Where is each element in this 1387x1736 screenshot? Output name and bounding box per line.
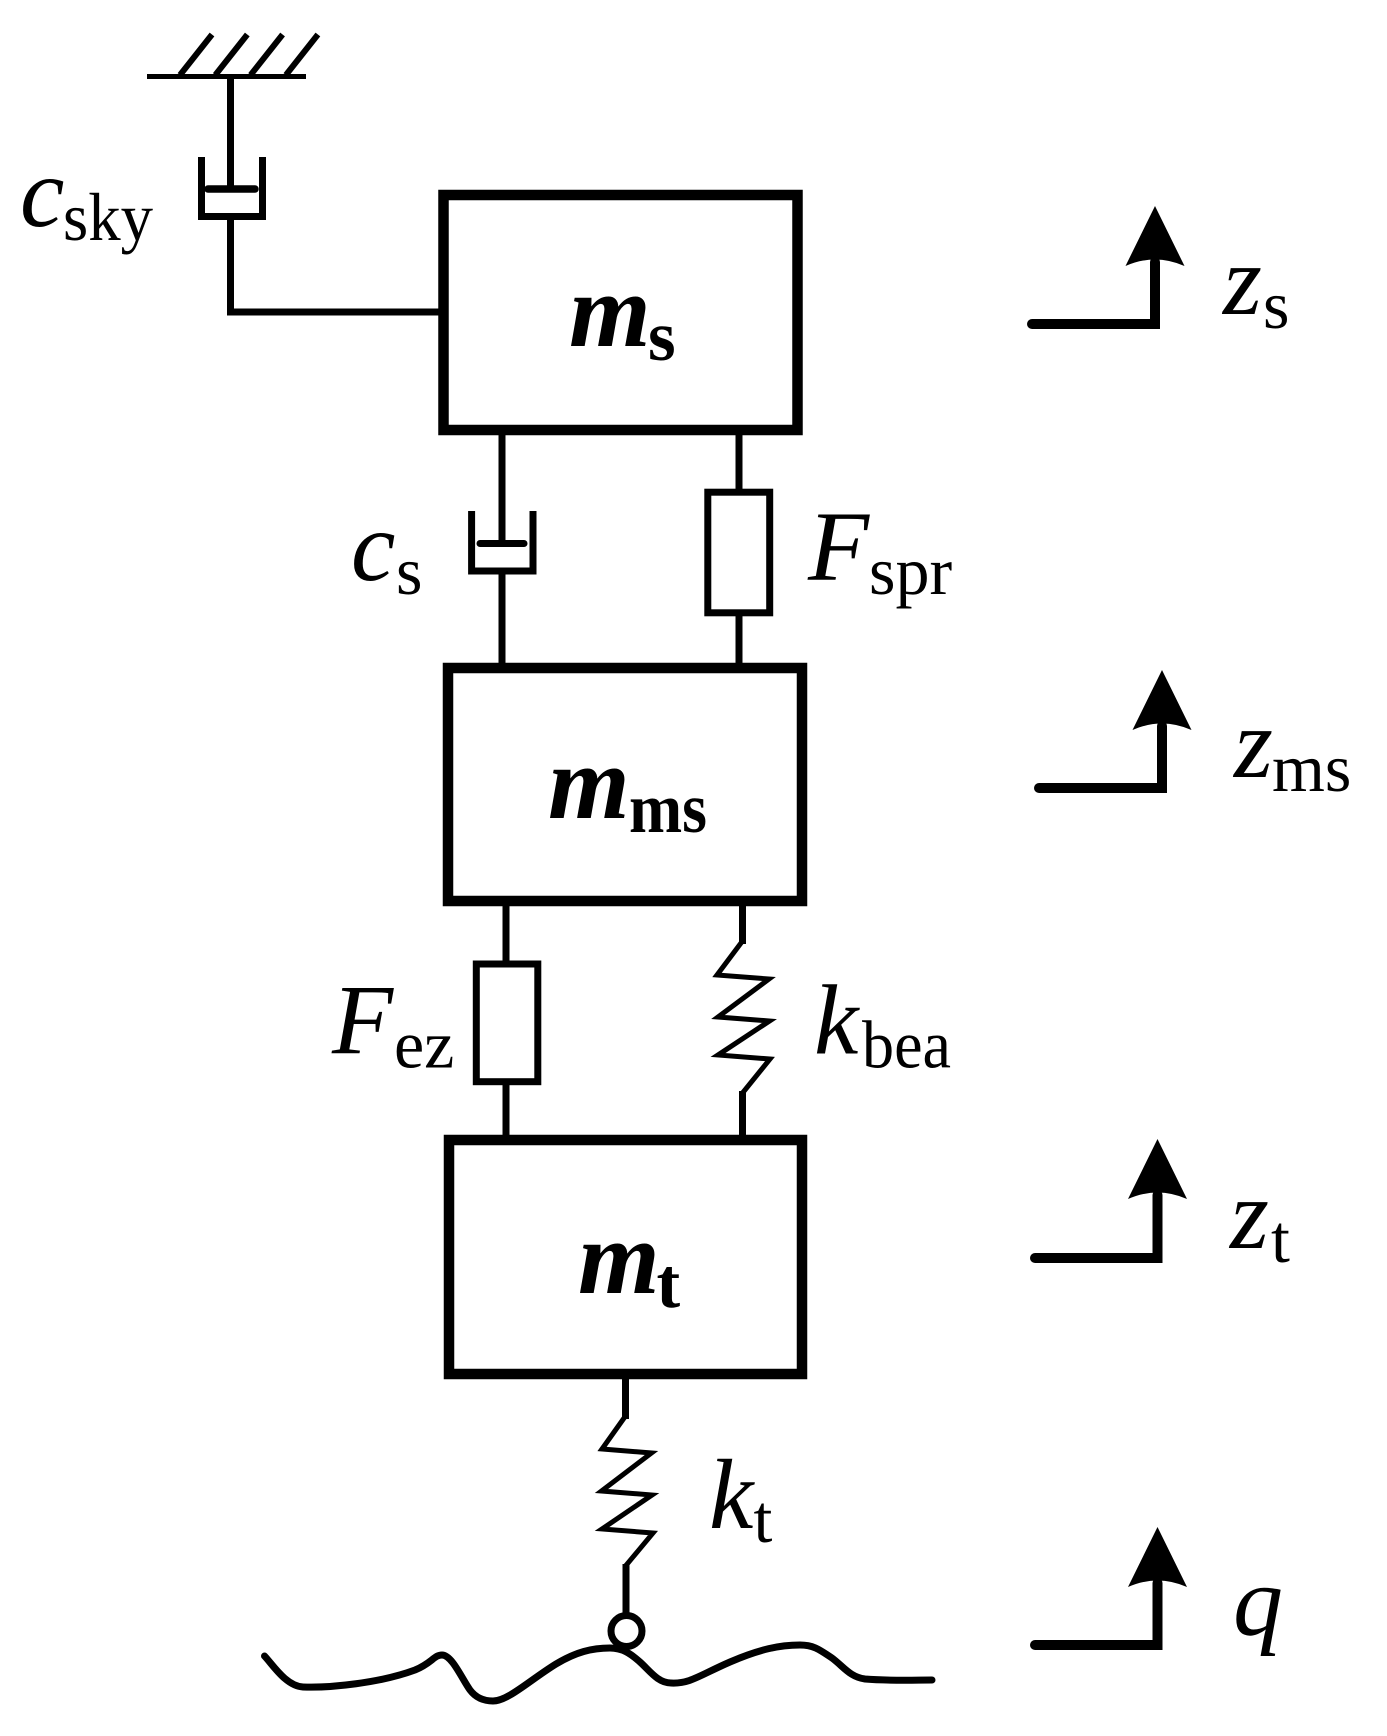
axis arrow z_s	[1032, 206, 1185, 324]
wire m_ms to force element F_ez	[503, 906, 510, 963]
svg-text:m: m	[569, 252, 651, 369]
svg-text:k: k	[709, 1439, 755, 1550]
force element F_spr	[708, 492, 770, 613]
wire damper c_s to mass m_ms	[499, 574, 506, 665]
svg-text:spr: spr	[869, 533, 952, 609]
mass m_s	[444, 195, 798, 430]
svg-text:F: F	[331, 965, 394, 1076]
force element F_ez	[476, 964, 538, 1082]
spring k_t	[602, 1416, 654, 1566]
wire ceiling to damper piston	[227, 76, 234, 187]
svg-text:s: s	[396, 533, 422, 609]
wire m_t to spring k_t	[622, 1379, 629, 1419]
road contact point (circle)	[611, 1616, 642, 1647]
axis arrow z_ms	[1039, 670, 1192, 788]
spring k_bea	[717, 941, 770, 1093]
damper c_sky	[202, 157, 263, 217]
svg-text:bea: bea	[862, 1007, 951, 1083]
wire m_ms to spring k_bea	[739, 906, 746, 944]
svg-text:ms: ms	[629, 770, 707, 848]
mass m_t	[449, 1140, 802, 1374]
axis arrow z_t	[1035, 1139, 1187, 1258]
svg-text:z: z	[1221, 225, 1262, 336]
svg-text:s: s	[1263, 267, 1289, 343]
damper c_s	[472, 511, 533, 571]
svg-text:k: k	[814, 965, 860, 1076]
mass m_ms	[448, 668, 802, 901]
svg-text:m: m	[548, 724, 630, 841]
axis arrow q	[1035, 1527, 1187, 1645]
svg-text:F: F	[807, 491, 870, 602]
road profile (wavy ground line)	[265, 1645, 933, 1701]
wire F_spr to mass m_ms	[736, 610, 743, 665]
wire spring k_t to road contact	[623, 1564, 630, 1614]
wire spring k_bea to mass m_t	[739, 1091, 746, 1137]
svg-text:t: t	[657, 1245, 681, 1323]
wire m_s to force element F_spr	[736, 435, 743, 494]
svg-text:z: z	[1232, 688, 1273, 799]
wire F_ez to mass m_t	[503, 1083, 510, 1137]
svg-text:t: t	[754, 1481, 773, 1557]
svg-text:c: c	[351, 491, 395, 602]
wire damper c_sky to mass m_s	[231, 220, 442, 312]
svg-text:t: t	[1271, 1201, 1290, 1277]
svg-text:s: s	[648, 298, 676, 376]
svg-text:ez: ez	[394, 1007, 454, 1083]
svg-text:z: z	[1228, 1159, 1269, 1270]
wire m_s to damper c_s	[499, 435, 506, 540]
ceiling ground (skyhook anchor)	[147, 35, 318, 77]
svg-text:q: q	[1233, 1546, 1283, 1657]
svg-text:ms: ms	[1272, 730, 1351, 806]
svg-text:sky: sky	[63, 179, 153, 255]
svg-text:m: m	[578, 1199, 660, 1316]
svg-text:c: c	[20, 137, 64, 248]
